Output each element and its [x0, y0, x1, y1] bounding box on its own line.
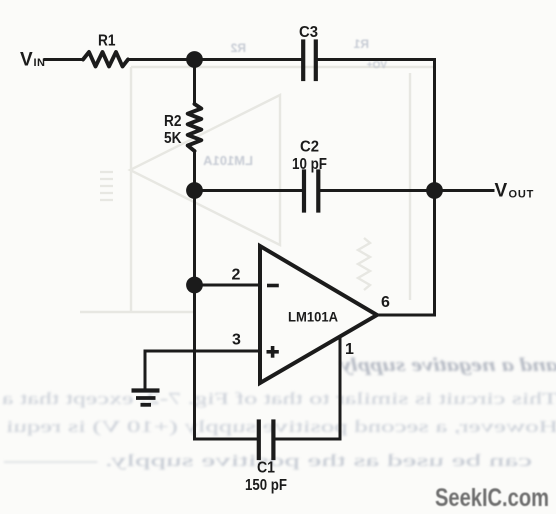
junction node B — [186, 182, 203, 199]
op-amp U1 LM101A body — [260, 246, 377, 383]
svg-text:R2: R2 — [230, 41, 246, 55]
svg-text:IN: IN — [34, 57, 46, 69]
capacitor C1 — [259, 422, 274, 459]
op-amp non-inverting input marking — [267, 346, 279, 358]
wire: VOUT stub — [435, 189, 494, 192]
resistor R1 — [83, 52, 128, 67]
svg-text:This circuit is similar to tha: This circuit is similar to that of Fig. … — [1, 389, 556, 408]
svg-text:10 pF: 10 pF — [292, 156, 327, 173]
svg-text:C3: C3 — [299, 24, 318, 41]
ground — [132, 391, 160, 405]
svg-text:OUT: OUT — [509, 189, 535, 201]
svg-text:R1: R1 — [353, 37, 369, 51]
wire: node A down to R2 — [193, 60, 196, 105]
wire: R2 to node B — [193, 151, 196, 191]
resistor R2 — [188, 104, 202, 151]
wire: C3 to right rail corner — [318, 60, 435, 193]
wire: C2 to VOUT node — [321, 189, 435, 192]
svg-text:V: V — [20, 50, 33, 71]
page show-through ghost graphics (decorative) — [80, 67, 436, 312]
svg-text:5K: 5K — [164, 130, 182, 147]
page show-through ghost text (decorative) — [203, 37, 387, 168]
junction node A — [186, 51, 203, 68]
wire: node B to C2 — [195, 189, 303, 192]
svg-text:2: 2 — [232, 267, 241, 284]
svg-text:6: 6 — [381, 294, 390, 311]
junction node C — [186, 277, 203, 294]
svg-text:SeekIC.com: SeekIC.com — [435, 484, 549, 512]
wire: pin 6 output — [377, 314, 435, 317]
capacitor C3 — [303, 42, 316, 80]
svg-text:VO+: VO+ — [367, 60, 387, 71]
svg-text:R2: R2 — [164, 113, 182, 130]
wire: node C down to bottom rail, to C1 — [195, 285, 258, 439]
svg-text:1: 1 — [345, 341, 354, 358]
svg-text:R1: R1 — [98, 33, 116, 50]
svg-text:However, a second positive sup: However, a second positive supply (+10 V… — [6, 417, 556, 436]
svg-text:LM101A: LM101A — [288, 309, 338, 325]
svg-text:and a negative supply: and a negative supply — [339, 355, 556, 376]
svg-text:3: 3 — [232, 332, 241, 349]
svg-text:C1: C1 — [257, 460, 275, 477]
op-amp inverting input marking — [267, 284, 279, 288]
wire: pin 1 down to bottom rail, to C1 — [275, 337, 341, 439]
wire: VIN to R1 — [45, 58, 83, 61]
wire: node C to pin 2 — [195, 284, 261, 287]
wire: pin 3 input — [145, 350, 260, 353]
wire: node A to C3 — [195, 58, 302, 61]
svg-text:C2: C2 — [300, 139, 319, 156]
svg-text:150 pF: 150 pF — [245, 477, 287, 494]
wire: node B down to node C — [193, 191, 196, 286]
wire: R1 to node A — [128, 58, 195, 61]
wire: ground stub — [144, 351, 147, 389]
svg-text:LM101A: LM101A — [203, 153, 253, 168]
svg-text:V: V — [495, 181, 508, 202]
junction node VOUT — [426, 182, 443, 199]
main schematic ink — [45, 42, 493, 459]
capacitor C2 — [304, 172, 318, 211]
wire: right rail, VOUT node down to pin 6 level — [433, 191, 436, 316]
